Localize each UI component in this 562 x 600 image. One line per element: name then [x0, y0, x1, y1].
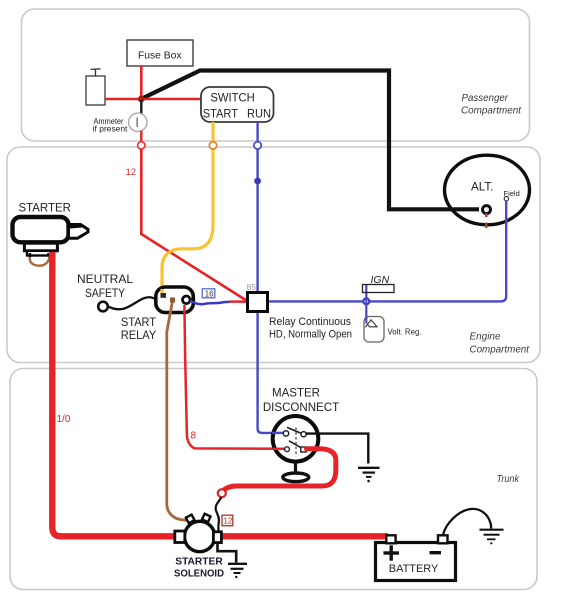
fuse box F1: [127, 40, 193, 66]
starter nose: [69, 225, 89, 239]
svg-text:Compartment: Compartment: [461, 105, 522, 117]
wire yellow stub into relay: [160, 289, 163, 295]
battery minus symbol: [430, 551, 442, 554]
svg-text:SOLENOID: SOLENOID: [174, 569, 224, 580]
alternator output terminal: [483, 206, 491, 214]
battery positive post: [386, 535, 395, 543]
start relay terminal yellow: [161, 293, 167, 298]
start relay terminal brown: [170, 298, 175, 303]
IGN connector: [363, 285, 395, 293]
svg-text:HD, Normally Open: HD, Normally Open: [269, 329, 352, 341]
wire yellow start circuit: [162, 122, 213, 294]
blue splice dot: [254, 178, 261, 185]
wire red shunt to switch: [105, 98, 202, 101]
svg-text:12: 12: [223, 517, 232, 526]
svg-text:ALT.: ALT.: [471, 180, 494, 194]
svg-text:Engine: Engine: [470, 331, 501, 343]
svg-text:12: 12: [126, 167, 137, 178]
svg-text:SAFETY: SAFETY: [85, 286, 125, 300]
node red trunk splice ring: [218, 489, 226, 497]
svg-text:Volt. Reg.: Volt. Reg.: [388, 327, 422, 337]
disconnect upper-right contact: [301, 432, 306, 437]
wire blue relay to master disconnect: [258, 312, 284, 433]
svg-text:STARTER: STARTER: [175, 557, 223, 568]
neutral safety switch: [98, 302, 108, 312]
ammeter shunt block: [86, 76, 105, 105]
ignition switch SW1: [201, 87, 274, 122]
shunt top terminal: [91, 69, 101, 76]
wire blue start relay to splice: [190, 301, 230, 305]
svg-text:RELAY: RELAY: [121, 328, 157, 342]
wire black solenoid to ground: [218, 543, 237, 563]
wire black neutral safety to start relay: [108, 297, 156, 309]
svg-text:Compartment: Compartment: [470, 344, 531, 356]
battery negative post: [438, 535, 448, 543]
ground symbol engine disconnect: [358, 467, 380, 469]
svg-text:if present: if present: [93, 125, 129, 134]
wire red stub into disconnect: [273, 448, 286, 451]
engine compartment box: [7, 147, 540, 363]
svg-text:START: START: [203, 109, 238, 121]
solenoid left bolt: [186, 515, 195, 524]
relay terminal 85 box: [248, 293, 268, 312]
battery plus symbol: [384, 551, 400, 554]
master disconnect switch body: [273, 416, 319, 462]
alternator ALT body: [445, 155, 530, 225]
svg-text:Trunk: Trunk: [497, 474, 520, 485]
battery: [376, 543, 456, 581]
wire red 8 start relay to master disconnect: [184, 305, 285, 449]
disconnect linkage dashed: [295, 428, 297, 457]
voltage regulator: [364, 317, 384, 343]
ground symbol solenoid: [228, 563, 247, 565]
solenoid right bolt: [202, 514, 211, 522]
disconnect lower-left contact: [285, 447, 290, 452]
junction node main splice: [138, 96, 145, 103]
ground symbol battery: [480, 529, 504, 531]
svg-text:MASTER: MASTER: [272, 386, 320, 400]
svg-text:NEUTRAL: NEUTRAL: [77, 272, 133, 286]
svg-text:IGN: IGN: [371, 274, 390, 286]
connector 12 box: [222, 515, 233, 526]
red stub blue splice to relay: [229, 300, 248, 303]
node blue bulkhead pass-through: [254, 142, 261, 149]
wire brown start relay to solenoid: [167, 302, 188, 520]
wire blue run circuit: [256, 122, 258, 293]
start relay terminal ring: [183, 296, 191, 304]
svg-text:1/0: 1/0: [57, 414, 71, 425]
field terminal: [504, 197, 508, 201]
svg-text:16: 16: [205, 289, 214, 298]
wire red ammeter to bulkhead node: [140, 131, 142, 143]
svg-text:85: 85: [247, 282, 257, 292]
wire red fuse box to junction: [140, 66, 143, 99]
disconnect stem: [294, 462, 297, 474]
wire black disconnect to ground: [306, 434, 368, 464]
disconnect upper lever: [287, 427, 303, 434]
passenger compartment box: [22, 9, 530, 141]
wire black switch feed to alternator: [141, 71, 479, 210]
node yellow bulkhead pass-through: [209, 142, 216, 149]
red stub marks below alternator terminal: [485, 213, 487, 217]
node red bulkhead pass-through: [138, 142, 145, 149]
svg-text:Passenger: Passenger: [462, 92, 509, 104]
wire blue junction to IGN: [365, 285, 367, 302]
wire black battery to ground: [443, 509, 491, 535]
starter foot: [24, 243, 57, 251]
starter solenoid body: [184, 521, 214, 551]
wire blue junction to voltage regulator: [365, 301, 367, 323]
svg-text:SWITCH: SWITCH: [210, 91, 254, 105]
svg-text:STARTER: STARTER: [19, 201, 72, 215]
starter pinion legs: [29, 253, 31, 257]
wire red 12 vertical and diagonal to relay: [141, 149, 248, 301]
wire thick red battery cable loop: [224, 449, 336, 491]
solenoid right terminal: [213, 532, 221, 543]
disconnect lower-right contact: [301, 447, 306, 452]
svg-text:8: 8: [191, 431, 197, 442]
junction blue splice: [363, 298, 369, 304]
svg-text:BATTERY: BATTERY: [389, 563, 439, 575]
connector 16 box: [202, 289, 215, 298]
wire blue relay output to field: [268, 201, 507, 302]
disconnect lower lever: [289, 441, 303, 449]
svg-text:Relay Continuous: Relay Continuous: [269, 316, 352, 328]
wire brown starter loop: [30, 257, 50, 266]
svg-text:RUN: RUN: [247, 109, 271, 121]
solenoid left terminal: [175, 531, 185, 543]
disconnect base: [283, 473, 309, 482]
wire blue stub into disconnect: [272, 432, 284, 434]
wire black junction to ammeter: [140, 100, 142, 114]
svg-text:DISCONNECT: DISCONNECT: [263, 400, 340, 414]
wire black splice to solenoid: [216, 497, 222, 532]
start relay K1: [156, 287, 194, 313]
starter pinion: [27, 251, 54, 256]
svg-text:Fuse Box: Fuse Box: [138, 50, 182, 62]
ammeter M1: [129, 113, 147, 131]
wire thick red 1/0 battery cable: [52, 252, 388, 536]
starter motor body: [13, 217, 69, 242]
disconnect upper-left contact: [283, 431, 288, 436]
trunk compartment box: [10, 369, 537, 590]
